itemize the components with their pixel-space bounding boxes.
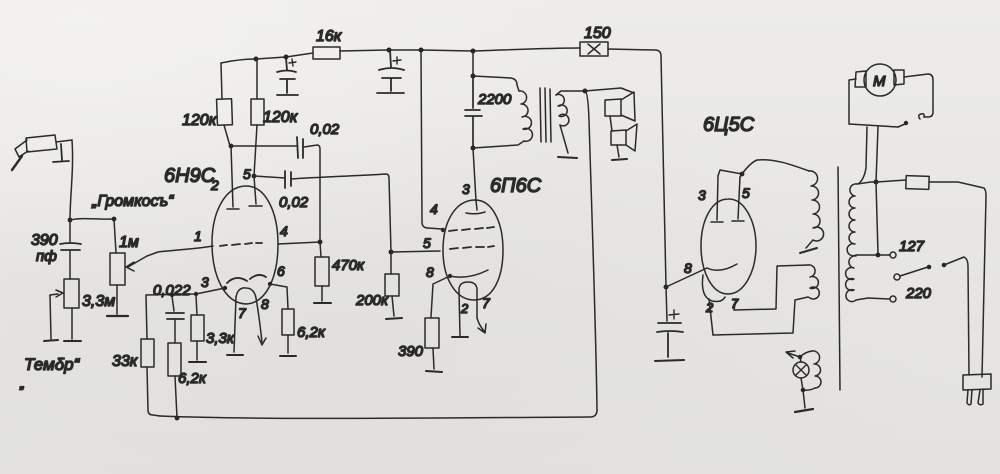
wire 390 bottom: [433, 348, 434, 369]
wire node to V2 anode: [473, 148, 476, 201]
tube V3 plate lead 5: [732, 177, 744, 221]
resistor 120k (R2) body: [251, 99, 264, 125]
svg-text:6Н9С: 6Н9С: [164, 165, 216, 187]
svg-text:6: 6: [277, 263, 285, 279]
svg-text:6,2к: 6,2к: [178, 370, 207, 387]
fuse X mark: [588, 44, 600, 54]
node pin6 envelope: [268, 282, 272, 286]
svg-text:M: M: [873, 73, 886, 90]
node pin5: [252, 174, 257, 179]
wire 390pf to 3.3M pot: [69, 251, 71, 279]
svg-text:220: 220: [905, 285, 932, 302]
tube V2 anode lead: [466, 200, 485, 214]
resistor 6.2k cathode V1b body: [282, 309, 294, 335]
node 127 tap: [876, 253, 881, 258]
plug prong 2: [978, 389, 983, 405]
wire motor left side: [849, 79, 856, 124]
wire pin2 to filament winding bottom: [713, 297, 808, 335]
motor switch hook B: [919, 114, 924, 119]
wire V2 pin8 to 390: [431, 276, 450, 317]
plug prong 1: [967, 390, 972, 405]
terminal bar 6.2k: [280, 355, 296, 357]
svg-text:33к: 33к: [112, 353, 139, 370]
svg-text:2: 2: [210, 177, 219, 193]
wire rail after 16k: [340, 48, 580, 51]
svg-text:0,022: 0,022: [153, 282, 191, 299]
jack sleeve contact stub: [53, 144, 69, 162]
wire V3 pin2 down: [709, 299, 713, 335]
wire mains switch to plug wire: [944, 257, 969, 375]
svg-text:2200: 2200: [477, 91, 512, 108]
terminal bar pin7: [227, 354, 243, 356]
svg-text:390: 390: [31, 232, 58, 249]
tube V1 envelope 6N9S: [212, 186, 278, 304]
node primary top junction: [874, 180, 879, 185]
svg-text:0,02: 0,02: [279, 194, 309, 211]
terminal bar speaker2: [612, 159, 627, 160]
svg-text:6,2к: 6,2к: [297, 324, 326, 341]
wire speaker2 to ground: [617, 145, 619, 157]
svg-text:7: 7: [731, 296, 739, 311]
wire pin6 to 6.2k: [270, 284, 288, 309]
wire R1 top lead: [221, 63, 222, 99]
transformer lamp winding: [812, 351, 821, 388]
tube V3 envelope: [701, 199, 756, 294]
tube V1 grid1 dashes: [220, 243, 262, 246]
wire pin5 node to cap2: [254, 176, 285, 178]
svg-text:127: 127: [899, 238, 925, 255]
tube V1 pin8 arrow heater: [256, 298, 266, 345]
node pin4 junction: [318, 240, 323, 245]
terminal circle 220: [890, 296, 896, 302]
wire anode node to coupling cap: [231, 145, 297, 147]
wire node to primary bottom: [473, 141, 524, 148]
selector switch arm: [900, 267, 928, 276]
wire node to speaker1: [585, 88, 634, 93]
wire 33k top lead: [146, 295, 147, 339]
svg-text:120к: 120к: [263, 109, 299, 126]
svg-text:3: 3: [698, 187, 706, 203]
svg-text:0,02: 0,02: [310, 121, 340, 138]
fuse primary body: [906, 176, 929, 190]
node speaker junction: [583, 89, 588, 94]
pilot lamp circle: [793, 362, 809, 378]
svg-text:8: 8: [261, 296, 269, 312]
node 0.022 top: [170, 293, 174, 297]
potentiometer 3.3M wiper arrow: [50, 290, 63, 297]
resistor 120k (R1) body: [217, 99, 233, 126]
svg-text:8: 8: [426, 264, 434, 280]
output transformer secondary coil: [556, 94, 569, 125]
wire HV bottom tail: [806, 240, 813, 248]
input jack body: [26, 135, 57, 152]
tube V2 pin7 arrow: [477, 318, 486, 333]
transformer HV winding: [809, 171, 824, 241]
tube V1 pin5 anode lead: [249, 176, 262, 206]
tube V2 cathode arc: [450, 270, 488, 277]
resistor 6.2k body (tone): [168, 343, 181, 376]
motor brush right: [894, 70, 904, 85]
wire jack to vertical: [56, 140, 72, 142]
svg-text:1м: 1м: [119, 234, 139, 251]
node V2 cathode envelope: [448, 274, 452, 278]
svg-text:3: 3: [201, 274, 209, 290]
terminal circle 127: [890, 252, 896, 258]
wire 6.2k bottom: [287, 335, 289, 353]
svg-text:5: 5: [423, 235, 431, 251]
wire lamp winding top to node: [800, 351, 812, 357]
svg-text:2: 2: [460, 301, 469, 316]
svg-text:„Громкосъ“: „Громкосъ“: [91, 193, 175, 210]
wire plates join top: [718, 170, 742, 177]
terminal bar lamp: [795, 409, 813, 412]
wire junction down to 127 tap: [876, 182, 878, 254]
potentiometer 1M wiper arrow: [126, 262, 134, 271]
wire B+ rail left segment: [221, 53, 313, 63]
node V2 screen envelope: [441, 228, 445, 232]
node V2 grid: [389, 250, 394, 255]
node rail screen drop: [419, 48, 424, 53]
svg-text:200к: 200к: [355, 292, 389, 309]
wire cathode to B+ node: [666, 268, 707, 287]
node motor switch A: [904, 121, 908, 125]
capacitor 0.02 coupling2 plates: [285, 171, 291, 188]
capacitor 2200: [465, 77, 482, 147]
wire coupling1 to pin4 node: [304, 145, 320, 242]
speaker 2 box: [611, 130, 626, 145]
tube V2 envelope 6P6S: [443, 200, 503, 300]
node plates join: [740, 172, 745, 177]
capacitor 0.022 plates: [166, 313, 184, 319]
resistor 16k body: [313, 47, 340, 59]
svg-text:6П6С: 6П6С: [490, 175, 542, 197]
wire V2 screen to rail: [421, 50, 442, 229]
svg-text:пф: пф: [36, 248, 57, 265]
wire R2 bottom to pin5: [254, 125, 257, 176]
output transformer core: [540, 88, 551, 142]
wire primary top to junction: [857, 182, 876, 184]
tube V2 heater arch: [459, 282, 477, 336]
resistor 470k body: [315, 257, 329, 286]
terminal bar 3.3M: [64, 340, 81, 342]
svg-text:6Ц5С: 6Ц5С: [703, 114, 755, 136]
terminal bar HV: [800, 248, 817, 253]
wire 3.3M bottom: [71, 308, 73, 339]
output transformer primary coil: [519, 91, 532, 141]
potentiometer 1M body: [110, 253, 125, 285]
node rectifier cathode tap: [664, 285, 669, 290]
wire plate node down from rail: [472, 51, 474, 76]
svg-text:8: 8: [684, 260, 692, 276]
node input/volume junction: [68, 218, 73, 223]
speaker 1 box: [605, 99, 621, 116]
svg-text:470к: 470к: [332, 257, 365, 274]
resistor 33k body: [141, 339, 154, 367]
node rail R2: [254, 57, 259, 62]
svg-text:150: 150: [584, 25, 611, 42]
node pin3 envelope: [223, 286, 227, 290]
wire R1 bottom to anode node: [224, 125, 230, 146]
svg-text:Темδр“: Темδр“: [24, 355, 81, 374]
wire secondary bottom to ground: [560, 125, 568, 153]
svg-text:5: 5: [243, 166, 251, 182]
transformer primary lower winding: [846, 256, 856, 302]
svg-text:3,3к: 3,3к: [206, 330, 235, 347]
capacitor 390pf plates: [60, 243, 81, 250]
input jack tip: [15, 140, 28, 157]
resistor 390 body: [425, 318, 439, 348]
capacitor output electrolytic: [657, 323, 683, 357]
terminal bar 3.3k: [189, 361, 206, 363]
node switch arm end: [927, 265, 932, 270]
wire junction to 390pf: [69, 221, 71, 243]
wire motor bottom frame: [849, 124, 898, 127]
wire pin7 to filament winding top: [734, 265, 808, 310]
wire lamp winding bottom to node: [803, 388, 815, 390]
wire lamp ground lead: [803, 390, 805, 408]
node 3.3k top: [194, 292, 198, 296]
svg-text:3,3м: 3,3м: [82, 293, 115, 310]
tube V1 pin2 anode lead: [227, 146, 239, 209]
resistor 3.3k body: [191, 315, 204, 341]
tube V3 plate lead 3: [711, 176, 723, 222]
tube V1 pin4 wire to node: [278, 242, 320, 244]
motor brush left: [855, 71, 866, 87]
node lamp bottom: [801, 388, 806, 393]
wire 1M wiper to tube pin 1: [128, 246, 213, 267]
node bottom bus: [175, 416, 180, 421]
wire V3 pin7 down: [734, 299, 736, 310]
speaker 2 cone: [626, 124, 637, 151]
wire after 150 to right corner: [608, 49, 666, 286]
wire junction to 1M pot top: [70, 219, 114, 220]
terminal bar wiper: [44, 340, 58, 341]
transformer primary upper winding: [847, 184, 857, 256]
wire motor stand left: [858, 127, 867, 184]
svg-text:120к: 120к: [182, 112, 218, 129]
terminal bar V2 pin2: [452, 336, 468, 338]
potentiometer 3.3M body: [64, 279, 79, 308]
wire 200k bottom: [392, 296, 394, 316]
svg-text:7: 7: [238, 305, 247, 321]
wire motor switch contact A: [898, 124, 905, 127]
plus sign output cap: [669, 310, 679, 319]
svg-text:4: 4: [280, 223, 288, 239]
plus sign filter1: [289, 59, 296, 66]
wire 1M bottom: [116, 285, 118, 314]
wire grid network bus: [146, 288, 225, 295]
wire grid node to 200k: [390, 253, 392, 274]
arrow heater feed: [786, 351, 800, 358]
wire secondary top to speaker node: [556, 91, 585, 95]
node mains switch contact: [942, 263, 947, 268]
svg-text:4: 4: [430, 201, 438, 217]
speaker 1 cone: [621, 92, 635, 121]
wire lamp top lead: [800, 357, 801, 362]
terminal bar output cap: [655, 360, 684, 361]
wire coupling2 to V2 grid: [291, 174, 391, 252]
node rail plate drop: [471, 49, 476, 54]
node rail C-filter2: [387, 48, 392, 53]
node cap/primary bottom: [471, 146, 476, 151]
wire 0.022 top lead: [172, 296, 174, 311]
tube V3 cathode arc: [707, 264, 737, 270]
capacitor 0.02 coupling1 plates: [297, 137, 303, 158]
wire 3.3M wiper down: [50, 295, 51, 339]
wire 6.2k bottom to bus: [175, 376, 177, 418]
wire 0.022 to 6.2k: [174, 320, 176, 343]
wire 220 tap: [856, 298, 889, 300]
svg-text:390: 390: [398, 343, 424, 360]
node lamp top: [798, 355, 803, 360]
capacitor filter1 electrolytic: [277, 58, 298, 95]
pilot lamp X: [796, 365, 806, 375]
node rail C-filter1: [284, 55, 289, 60]
terminal bar secondary: [558, 157, 577, 158]
svg-text:1: 1: [194, 228, 202, 244]
wire input vertical down: [70, 140, 73, 220]
plug body: [963, 374, 991, 390]
resistor 200k body: [385, 274, 399, 296]
wire 470k bottom: [321, 286, 323, 301]
wire motor stand right: [876, 127, 878, 182]
wire speaker1 to speaker2: [610, 116, 612, 131]
node anode coupling: [229, 144, 234, 149]
wire junction to fuse: [876, 180, 906, 182]
input jack cable stroke: [12, 156, 22, 170]
capacitor filter2 electrolytic: [377, 50, 404, 93]
wire R2 top lead: [256, 59, 258, 99]
wire node to OT primary top: [473, 76, 519, 91]
selector switch pole circle: [894, 274, 900, 280]
wire node down to output electrolytic: [666, 287, 667, 321]
wire lamp bottom lead: [801, 378, 803, 390]
wire bottom bus long: [160, 410, 597, 418]
wire motor right side: [904, 74, 933, 117]
node plate/cap junction: [471, 74, 476, 79]
tube V1 grid2 curved dashes: [227, 275, 266, 283]
wire 3.3k top lead: [196, 295, 197, 315]
wire 3.3k bottom: [196, 341, 198, 360]
motor circle: [864, 64, 896, 96]
terminal bar 1M: [107, 315, 128, 317]
node 1M top: [112, 217, 117, 222]
transformer filament winding: [808, 265, 819, 299]
svg-text:16к: 16к: [316, 28, 343, 45]
svg-text:5: 5: [742, 185, 750, 201]
wire 127 tap: [856, 254, 890, 256]
svg-text:3: 3: [462, 181, 470, 197]
tube V3 base loop: [702, 275, 725, 302]
wire fuse to plug wire: [929, 182, 986, 377]
terminal bar 390: [426, 371, 442, 372]
terminal bar 200k: [386, 318, 402, 319]
wire pin4 node to 470k: [320, 242, 321, 257]
tube V1 pin7 lead down: [234, 297, 236, 352]
wire 1M top lead: [114, 219, 116, 253]
terminal bar 470k: [314, 302, 331, 304]
svg-text:7: 7: [482, 295, 491, 311]
wire plates to HV winding: [742, 160, 809, 174]
tube V1 cathode arch: [236, 288, 256, 298]
transformer core line: [838, 167, 840, 390]
wire 33k bottom to bus: [147, 367, 160, 416]
tube V2 screen dashes: [449, 227, 494, 231]
wire speaker node to bottom bus: [585, 91, 597, 410]
svg-text:2: 2: [705, 300, 714, 315]
svg-text:„: „: [19, 375, 25, 391]
plus sign filter2: [393, 57, 401, 64]
wire grid node to V2 pin5: [391, 251, 440, 252]
tube V2 grid dashes: [450, 246, 494, 249]
resistor 150 fuse body: [580, 42, 608, 56]
